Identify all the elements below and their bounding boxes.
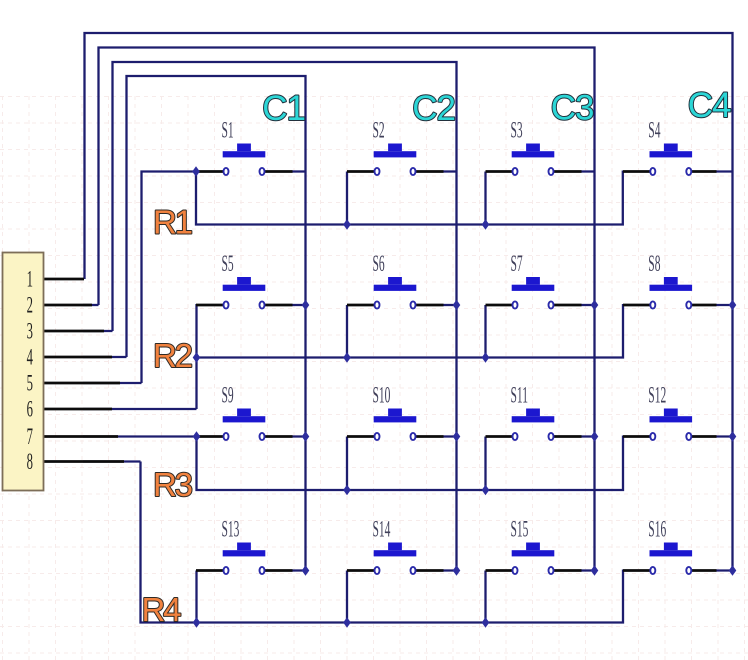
junction at 732.5,305 [729, 300, 737, 310]
svg-text:S14: S14 [373, 516, 391, 541]
svg-text:3: 3 [27, 319, 33, 345]
wire S6 right lead to C2 [443, 304, 457, 306]
switch S3 [486, 170, 513, 173]
junction at 347,622.5 [343, 617, 351, 627]
wire pin6 up to row2 [195, 304, 197, 409]
switch S2 [347, 170, 374, 173]
svg-text:S8: S8 [648, 251, 660, 276]
svg-text:S6: S6 [373, 251, 385, 276]
svg-text:S10: S10 [373, 382, 391, 407]
junction at 347,224.5 [343, 219, 351, 229]
switch S4 [623, 170, 650, 173]
switch S6 [347, 304, 374, 307]
switch S12 [623, 435, 650, 438]
svg-text:S3: S3 [511, 117, 523, 142]
wire pin8 down to net R4 [141, 462, 624, 623]
junction at 456.5,305 [453, 300, 461, 310]
svg-text:6: 6 [27, 397, 33, 423]
junction at 485.5,622.5 [482, 617, 490, 627]
junction at 196,171.5 [192, 166, 200, 176]
junction at 347,357.5 [343, 352, 351, 362]
junction at 305.5,436.5 [302, 431, 310, 441]
wire S10 right lead to C2 [443, 435, 457, 437]
connector J1 body [3, 253, 44, 491]
wire pin3 to column C2 net [113, 62, 457, 571]
svg-text:S4: S4 [648, 117, 660, 142]
wire S7 right lead to C3 [581, 304, 595, 306]
connector pin 3 lead [44, 330, 104, 333]
wire S5 right lead to C1 [292, 304, 306, 306]
junction at 594.5,570.5 [591, 565, 599, 575]
wire pin6 stub [83, 408, 197, 410]
wire net R3 [197, 436, 624, 491]
junction at 485.5,224.5 [482, 219, 490, 229]
wire S16 right lead to C4 [716, 569, 733, 571]
switch S8 [623, 304, 650, 307]
wire pin2 stub [83, 304, 99, 306]
wire pin7 to row3 [83, 435, 197, 437]
svg-text:S9: S9 [222, 382, 234, 407]
junction at 485.5,490 [482, 485, 490, 495]
svg-text:7: 7 [27, 424, 33, 450]
junction at 732.5,570.5 [729, 565, 737, 575]
connector pin 4 lead [44, 356, 112, 359]
wire S14 right lead to C2 [443, 569, 457, 571]
connector pin 7 lead [44, 435, 118, 438]
svg-text:4: 4 [27, 345, 33, 371]
junction at 305.5,570.5 [302, 565, 310, 575]
svg-text:R3: R3 [153, 466, 192, 503]
svg-text:S15: S15 [511, 516, 529, 541]
wire S13 right lead to C1 [292, 569, 306, 571]
wire S3 right lead to C3 [581, 170, 595, 172]
wire S4 right lead to C4 [716, 170, 733, 172]
wire S15 drop to R4 [484, 571, 486, 623]
junction at 305.5,305 [302, 300, 310, 310]
svg-text:C1: C1 [262, 89, 305, 128]
svg-text:C3: C3 [551, 89, 594, 128]
switch S10 [347, 435, 374, 438]
junction at 196.5,357.5 [193, 352, 201, 362]
svg-text:8: 8 [27, 449, 33, 475]
svg-text:R1: R1 [153, 204, 192, 241]
wire pin1 to column C4 net [85, 33, 733, 571]
svg-text:S7: S7 [511, 251, 523, 276]
switch S15 [486, 569, 513, 572]
junction at 196.5,622.5 [193, 617, 201, 627]
wire S15 right lead to C3 [581, 569, 595, 571]
connector pin 6 lead [44, 408, 112, 411]
svg-text:S5: S5 [222, 251, 234, 276]
svg-text:1: 1 [27, 267, 33, 293]
wire pin5 up to row1 [142, 172, 197, 384]
connector pin 8 lead [44, 460, 124, 463]
junction at 594.5,436.5 [591, 431, 599, 441]
junction at 485.5,357.5 [482, 352, 490, 362]
svg-text:S1: S1 [222, 117, 234, 142]
wire S8 right lead to C4 [716, 304, 733, 306]
svg-text:S11: S11 [511, 382, 528, 407]
wire pin5 stub [83, 382, 142, 384]
junction at 347,490 [343, 485, 351, 495]
wire S1 right lead to C1 [292, 170, 306, 172]
junction at 456.5,436.5 [453, 431, 461, 441]
connector pin 5 lead [44, 382, 120, 385]
wire S11 drop to R3 [484, 437, 486, 491]
svg-text:S16: S16 [648, 516, 666, 541]
wire S6 drop to R2 [346, 305, 348, 358]
switch S14 [347, 569, 374, 572]
wire net R1 [196, 171, 623, 225]
svg-text:R4: R4 [142, 591, 182, 628]
switch S5 [196, 304, 223, 307]
wire pin2 to column C3 net [99, 48, 595, 571]
svg-text:R2: R2 [153, 337, 192, 374]
wire S11 right lead to C3 [581, 435, 595, 437]
junction at 732.5,436.5 [729, 431, 737, 441]
wire S12 right lead to C4 [716, 435, 733, 437]
svg-text:C4: C4 [688, 86, 731, 125]
wire pin3 stub [83, 330, 113, 332]
wire S10 drop to R3 [346, 437, 348, 491]
svg-text:S2: S2 [373, 117, 385, 142]
switch S1 [196, 170, 223, 173]
wire pin8 stub [83, 460, 141, 462]
wire S3 drop to R1 [484, 172, 486, 225]
wire pin4 to column C1 net [127, 76, 306, 571]
switch S11 [486, 435, 513, 438]
connector pin 1 lead [44, 278, 84, 281]
wire S14 drop to R4 [346, 571, 348, 623]
junction at 456.5,570.5 [453, 565, 461, 575]
svg-text:5: 5 [27, 371, 33, 397]
switch S9 [196, 435, 223, 438]
wire S7 drop to R2 [484, 305, 486, 358]
wire S2 right lead to C2 [443, 170, 457, 172]
wire pin4 stub [83, 356, 127, 358]
svg-text:2: 2 [27, 293, 33, 319]
svg-text:S13: S13 [222, 516, 240, 541]
switch S7 [486, 304, 513, 307]
wire S13 drop to R4 [195, 571, 197, 623]
switch S13 [196, 569, 223, 572]
wire net R2 [197, 304, 624, 358]
junction at 594.5,305 [591, 300, 599, 310]
wire S9 right lead to C1 [292, 435, 306, 437]
svg-text:C2: C2 [412, 89, 455, 128]
switch S16 [623, 569, 650, 572]
svg-text:S12: S12 [648, 382, 666, 407]
junction at 196.5,436.5 [193, 431, 201, 441]
connector pin 2 lead [44, 304, 92, 307]
wire S2 drop to R1 [346, 172, 348, 225]
